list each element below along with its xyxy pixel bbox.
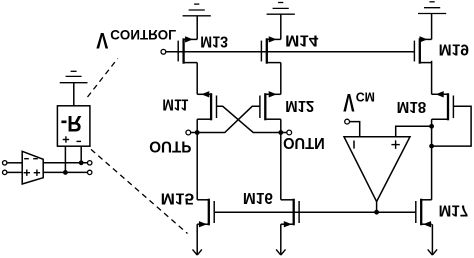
transistor M11 (cross-coupled NMOS) channel bar bbox=[210, 93, 212, 120]
transistor M18 (diode NMOS) source arrow bbox=[437, 92, 444, 97]
wire: op-amp plus input to bias node bbox=[396, 126, 432, 136]
label VCM subscript bbox=[356, 89, 375, 104]
svg-text:M14: M14 bbox=[285, 32, 318, 49]
label VCONTROL subscript bbox=[110, 27, 176, 43]
VDD supply arrow at M17 bbox=[431, 224, 433, 254]
wire: OUTP stub to terminal bbox=[191, 132, 197, 134]
label M11 bbox=[162, 96, 188, 113]
label M18 bbox=[397, 98, 427, 115]
transistor M16 (PMOS load) gate bar bbox=[298, 201, 300, 223]
wire: M13 source to ground bbox=[196, 16, 198, 40]
svg-text:V: V bbox=[96, 28, 108, 53]
wire: OUTP node to M11 drain bbox=[196, 119, 198, 132]
label M16 bbox=[243, 189, 273, 206]
wire: M19 source to ground bbox=[431, 14, 433, 40]
label M17 bbox=[439, 201, 469, 218]
wire: lower differential line right bbox=[43, 162, 87, 164]
label M19 bbox=[439, 41, 469, 58]
transistor M15 (PMOS load) drain lead bbox=[197, 199, 209, 201]
wire: OUTN rail M16-drain to OUTN node bbox=[280, 133, 282, 200]
ground G2 below M14 bar 1 bbox=[267, 13, 295, 15]
transistor M16 (PMOS load) drain lead bbox=[281, 199, 294, 201]
svg-text:OUTP: OUTP bbox=[149, 138, 192, 155]
amplifier A1 (buffer trapezoid) bbox=[22, 151, 43, 184]
transistor M14 (NMOS tail) drain lead bbox=[267, 62, 281, 64]
svg-text:M15: M15 bbox=[161, 190, 195, 207]
transistor M17 (PMOS bias) drain lead bbox=[421, 199, 431, 201]
node -R right lead junction bbox=[79, 160, 84, 165]
svg-text:-R: -R bbox=[61, 111, 82, 136]
wire: M12 source to M14 drain bbox=[280, 63, 282, 95]
transistor M19 (NMOS tail) source lead bbox=[420, 38, 432, 40]
resistor -R plus polarity mark bbox=[63, 139, 69, 141]
label M13 bbox=[200, 32, 228, 49]
transistor M12 (cross-coupled NMOS) channel bar bbox=[264, 93, 266, 120]
transistor M17 (PMOS bias) source arrow bbox=[424, 222, 431, 227]
ground G4 below -R bar 3 bbox=[71, 70, 77, 72]
wire: M11 gate to OUTN (cross-couple) bbox=[217, 106, 281, 132]
label M14 bbox=[285, 32, 318, 49]
wire: lower differential line left bbox=[7, 162, 22, 164]
transistor M18 (diode NMOS) drain lead bbox=[432, 118, 448, 120]
label M12 bbox=[285, 97, 314, 114]
label OUTP bbox=[149, 138, 192, 155]
svg-text:M11: M11 bbox=[162, 96, 188, 113]
wire: OUTN stub to terminal bbox=[281, 132, 287, 134]
ground G1 below M13 bar 1 bbox=[183, 15, 211, 17]
transistor M16 (PMOS load) source lead bbox=[281, 223, 294, 225]
transistor M16 (PMOS load) source arrow bbox=[284, 222, 291, 227]
transistor M15 (PMOS load) source lead bbox=[197, 223, 209, 225]
transistor M11 (cross-coupled NMOS) source lead bbox=[197, 93, 211, 95]
label VCM V bbox=[343, 88, 355, 115]
ground G1 below M13 bar 2 bbox=[189, 9, 205, 11]
transistor M17 (PMOS bias) channel bar bbox=[420, 199, 422, 226]
label OUTN bbox=[283, 134, 325, 151]
wire: PMOS gate line M15-M16-M17 bbox=[214, 211, 416, 213]
wire: M12 gate to OUTP (cross-couple) bbox=[197, 106, 260, 132]
svg-text:V: V bbox=[343, 88, 355, 115]
dashed annotation from -R output to supply arrow bbox=[91, 149, 188, 233]
transistor M11 (cross-coupled NMOS) gate bar bbox=[216, 96, 218, 119]
resistor -R block body bbox=[57, 106, 90, 146]
node M18 gate-drain junction bbox=[429, 144, 434, 149]
node VCM terminal bbox=[345, 119, 350, 124]
label M15 bbox=[161, 190, 195, 207]
transistor M13 (NMOS tail) channel bar bbox=[182, 38, 184, 63]
transistor M19 (NMOS tail) drain lead bbox=[420, 62, 432, 64]
op-amp U1 body bbox=[344, 137, 410, 202]
transistor M14 (NMOS tail) channel bar bbox=[266, 38, 268, 63]
transistor M19 (NMOS tail) source arrow bbox=[420, 37, 427, 42]
transistor M17 (PMOS bias) gate bar bbox=[415, 201, 417, 223]
wire: op-amp output to PMOS gate line bbox=[376, 202, 378, 213]
ground G3 below M19 bar 1 bbox=[418, 13, 446, 15]
wire: M17 drain down to bias node bbox=[431, 119, 433, 200]
label VCONTROL V bbox=[96, 28, 108, 53]
wire: M18 source to M19 drain bbox=[431, 61, 433, 95]
transistor M18 (diode NMOS) source lead bbox=[432, 93, 448, 95]
wire: -R right lead to lower line bbox=[80, 146, 82, 163]
amplifier A1 plus marks bbox=[24, 172, 30, 174]
wire: upper differential line left bbox=[7, 171, 22, 173]
node OUTN junction bbox=[278, 130, 283, 135]
ground G3 below M19 bar 2 bbox=[424, 7, 440, 9]
transistor M12 (cross-coupled NMOS) source lead bbox=[265, 93, 281, 95]
wire: VCONTROL gate line to M13 M14 M19 bbox=[166, 51, 415, 53]
transistor M13 (NMOS tail) source arrow bbox=[185, 37, 192, 42]
ground G2 below M14 bar 3 bbox=[278, 2, 283, 4]
transistor M13 (NMOS tail) gate bar bbox=[177, 41, 179, 62]
wire: M14 source to ground bbox=[280, 14, 282, 39]
svg-text:M17: M17 bbox=[439, 201, 469, 218]
transistor M15 (PMOS load) gate bar bbox=[213, 201, 215, 223]
svg-text:M19: M19 bbox=[439, 41, 469, 58]
transistor M11 (cross-coupled NMOS) drain lead bbox=[197, 118, 211, 120]
transistor M12 (cross-coupled NMOS) source arrow bbox=[269, 92, 276, 97]
transistor M13 (NMOS tail) source lead bbox=[184, 38, 198, 40]
ground G4 below -R bar 2 bbox=[66, 75, 82, 77]
VDD supply arrow at M16 bbox=[280, 224, 282, 254]
transistor M13 (NMOS tail) drain lead bbox=[184, 62, 198, 64]
op-amp U1 minus input mark bbox=[353, 141, 355, 149]
node output terminal upper-right bbox=[88, 170, 92, 174]
transistor M17 (PMOS bias) source lead bbox=[421, 223, 431, 225]
node OUTN terminal bbox=[287, 130, 292, 135]
node OUTP terminal bbox=[186, 130, 191, 135]
amplifier A1 minus marks bbox=[24, 158, 29, 160]
ground G2 below M14 bar 2 bbox=[273, 7, 289, 9]
node VCONTROL terminal bbox=[161, 49, 166, 54]
transistor M14 (NMOS tail) gate bar bbox=[260, 41, 262, 62]
dashed annotation from -R to VCONTROL bbox=[88, 59, 118, 98]
ground G1 below M13 bar 3 bbox=[194, 3, 199, 5]
op-amp U1 plus input mark bbox=[391, 144, 399, 146]
transistor M11 (cross-coupled NMOS) source arrow bbox=[202, 92, 209, 97]
node op-amp output junction bbox=[374, 210, 379, 215]
node output terminal lower-right bbox=[88, 161, 92, 165]
transistor M16 (PMOS load) channel bar bbox=[293, 199, 295, 226]
transistor M15 (PMOS load) channel bar bbox=[208, 199, 210, 226]
VDD supply arrow at M15 bbox=[196, 224, 198, 254]
transistor M18 (diode NMOS) gate bar bbox=[452, 96, 454, 119]
wire: -R block to ground bbox=[73, 83, 75, 106]
svg-text:OUTN: OUTN bbox=[283, 134, 325, 151]
wire: VCM to op-amp minus input bbox=[350, 122, 360, 137]
svg-text:CM: CM bbox=[356, 89, 375, 104]
transistor M15 (PMOS load) source arrow bbox=[199, 222, 206, 227]
transistor M19 (NMOS tail) channel bar bbox=[419, 38, 421, 63]
transistor M18 (diode NMOS) channel bar bbox=[447, 93, 449, 120]
wire: OUTN node to M12 drain bbox=[280, 119, 282, 132]
wire: M18 gate feedback to drain node bbox=[432, 106, 472, 146]
wire: -R left lead to upper line bbox=[64, 146, 66, 172]
wire: OUTP rail M15-drain to OUTP node bbox=[196, 133, 198, 200]
ground G3 below M19 bar 3 bbox=[430, 1, 435, 3]
wire: upper differential line right bbox=[43, 171, 87, 173]
svg-text:M12: M12 bbox=[285, 97, 314, 114]
node input terminal lower-left bbox=[2, 161, 6, 165]
transistor M12 (cross-coupled NMOS) gate bar bbox=[259, 96, 261, 119]
node input terminal upper-left bbox=[2, 170, 6, 174]
resistor -R minus polarity mark bbox=[77, 140, 82, 142]
transistor M19 (NMOS tail) gate bar bbox=[413, 41, 415, 62]
svg-text:M16: M16 bbox=[243, 189, 273, 206]
node OUTP junction bbox=[195, 130, 200, 135]
transistor M14 (NMOS tail) source arrow bbox=[269, 37, 276, 42]
svg-text:M13: M13 bbox=[200, 32, 228, 49]
transistor M14 (NMOS tail) source lead bbox=[267, 38, 281, 40]
transistor M12 (cross-coupled NMOS) drain lead bbox=[265, 118, 281, 120]
ground G4 below -R bar 1 bbox=[60, 82, 88, 84]
node -R left lead junction bbox=[63, 170, 68, 175]
svg-text:M18: M18 bbox=[397, 98, 427, 115]
svg-text:CONTROL: CONTROL bbox=[110, 27, 176, 43]
node op-amp plus tap junction bbox=[429, 124, 434, 129]
wire: M11 source to M13 drain bbox=[196, 63, 198, 95]
